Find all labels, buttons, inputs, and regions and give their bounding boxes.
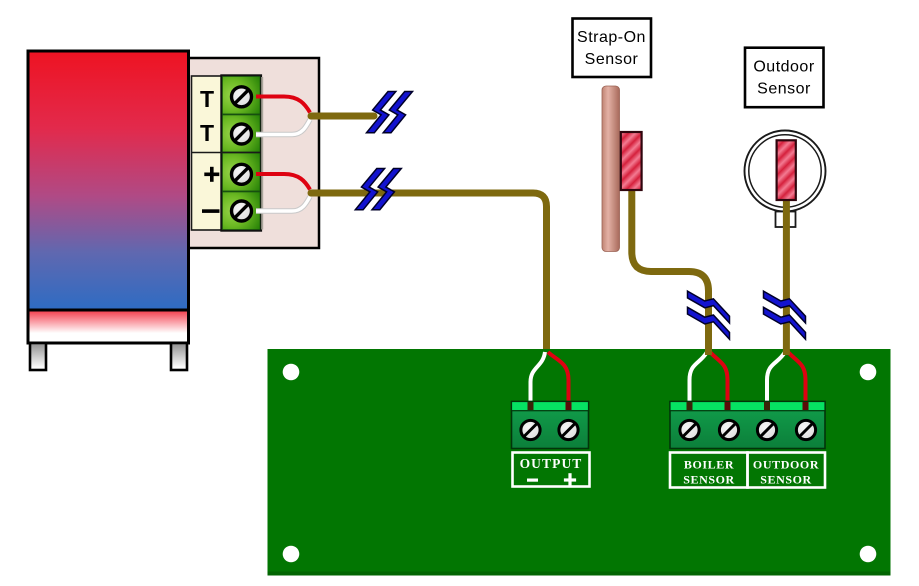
boiler body bbox=[28, 51, 189, 310]
svg-text:Strap-On: Strap-On bbox=[577, 29, 646, 46]
Outdoor Sensor label bbox=[745, 48, 824, 107]
white wire into OUTDOOR SENSOR bbox=[767, 352, 785, 404]
label + (terminal 3) bbox=[204, 167, 219, 182]
Strap-On Sensor label bbox=[573, 19, 652, 78]
OUTPUT label box bbox=[513, 453, 590, 487]
svg-text:Outdoor: Outdoor bbox=[753, 59, 814, 76]
outdoor sensor element bbox=[777, 140, 796, 200]
sensor screw 3 bbox=[757, 420, 776, 439]
red wire from + screw bbox=[256, 174, 310, 190]
mounting hole top-left bbox=[283, 364, 300, 381]
mounting hole bottom-right bbox=[860, 546, 877, 563]
svg-text:OUTPUT: OUTPUT bbox=[520, 456, 583, 471]
svg-text:SENSOR: SENSOR bbox=[683, 473, 735, 487]
white wire into BOILER SENSOR bbox=[690, 352, 708, 404]
break symbol B2 on W2 (horizontal) bbox=[355, 169, 401, 210]
svg-text:Sensor: Sensor bbox=[585, 51, 639, 68]
red wire into OUTDOOR SENSOR bbox=[788, 352, 806, 404]
terminal strip label area (cream) bbox=[192, 76, 223, 230]
label - (terminal 4) bbox=[202, 209, 220, 213]
OUTPUT terminal block bbox=[512, 402, 589, 449]
olive cable W3 (strap-on sensor) bbox=[632, 189, 709, 355]
strap-on pipe bbox=[602, 86, 620, 252]
svg-text:BOILER: BOILER bbox=[684, 458, 734, 472]
red wire from T1 screw bbox=[256, 97, 310, 113]
olive cable W2 (output pair) bbox=[311, 193, 547, 353]
olive cable W4 (outdoor sensor) bbox=[783, 199, 790, 355]
break symbol B4 on W4 (vertical) bbox=[764, 291, 806, 339]
break symbol B1 on W1 (horizontal) bbox=[367, 92, 413, 133]
OUTPUT screw - bbox=[521, 420, 540, 439]
boiler base band bbox=[28, 310, 189, 343]
outdoor sensor enclosure inner circle bbox=[749, 135, 821, 207]
screw T2 bbox=[232, 124, 252, 144]
mounting hole bottom-left bbox=[283, 546, 300, 563]
sensor screw 2 bbox=[719, 420, 738, 439]
mounting hole top-right bbox=[860, 364, 877, 381]
outdoor sensor enclosure outer circle bbox=[745, 131, 826, 212]
outdoor sensor gland bbox=[776, 212, 796, 228]
screw minus bbox=[232, 201, 252, 221]
svg-text:OUTDOOR: OUTDOOR bbox=[753, 458, 819, 472]
red wire into BOILER SENSOR bbox=[710, 352, 728, 404]
sensor screw 4 bbox=[796, 420, 815, 439]
OUTPUT screw + bbox=[559, 420, 578, 439]
svg-text:T: T bbox=[200, 86, 214, 112]
BOILER SENSOR label box bbox=[670, 453, 748, 488]
strap-on sensor element bbox=[621, 132, 642, 190]
terminal box on boiler bbox=[155, 58, 319, 248]
OUTDOOR SENSOR label box bbox=[748, 453, 826, 488]
boiler leg left bbox=[30, 343, 46, 370]
boiler leg right bbox=[171, 343, 187, 370]
olive cable W1 (thermostat pair) bbox=[311, 113, 374, 120]
white wire from - screw bbox=[256, 197, 310, 212]
red wire into OUTPUT + bbox=[548, 352, 569, 404]
svg-text:SENSOR: SENSOR bbox=[760, 473, 812, 487]
svg-text:Sensor: Sensor bbox=[757, 81, 811, 98]
SENSOR terminal block bbox=[670, 402, 825, 449]
screw plus bbox=[232, 164, 252, 184]
svg-text:T: T bbox=[200, 120, 214, 146]
sensor screw 1 bbox=[680, 420, 699, 439]
screw T1 bbox=[232, 87, 252, 107]
break symbol B3 on W3 (vertical) bbox=[688, 291, 730, 339]
white wire into OUTPUT - bbox=[531, 352, 546, 404]
white wire from T2 screw bbox=[256, 120, 310, 135]
circuit board bbox=[268, 349, 891, 576]
divider between T-T block and +/- block bbox=[192, 152, 261, 154]
terminal strip green cells bbox=[221, 75, 261, 231]
